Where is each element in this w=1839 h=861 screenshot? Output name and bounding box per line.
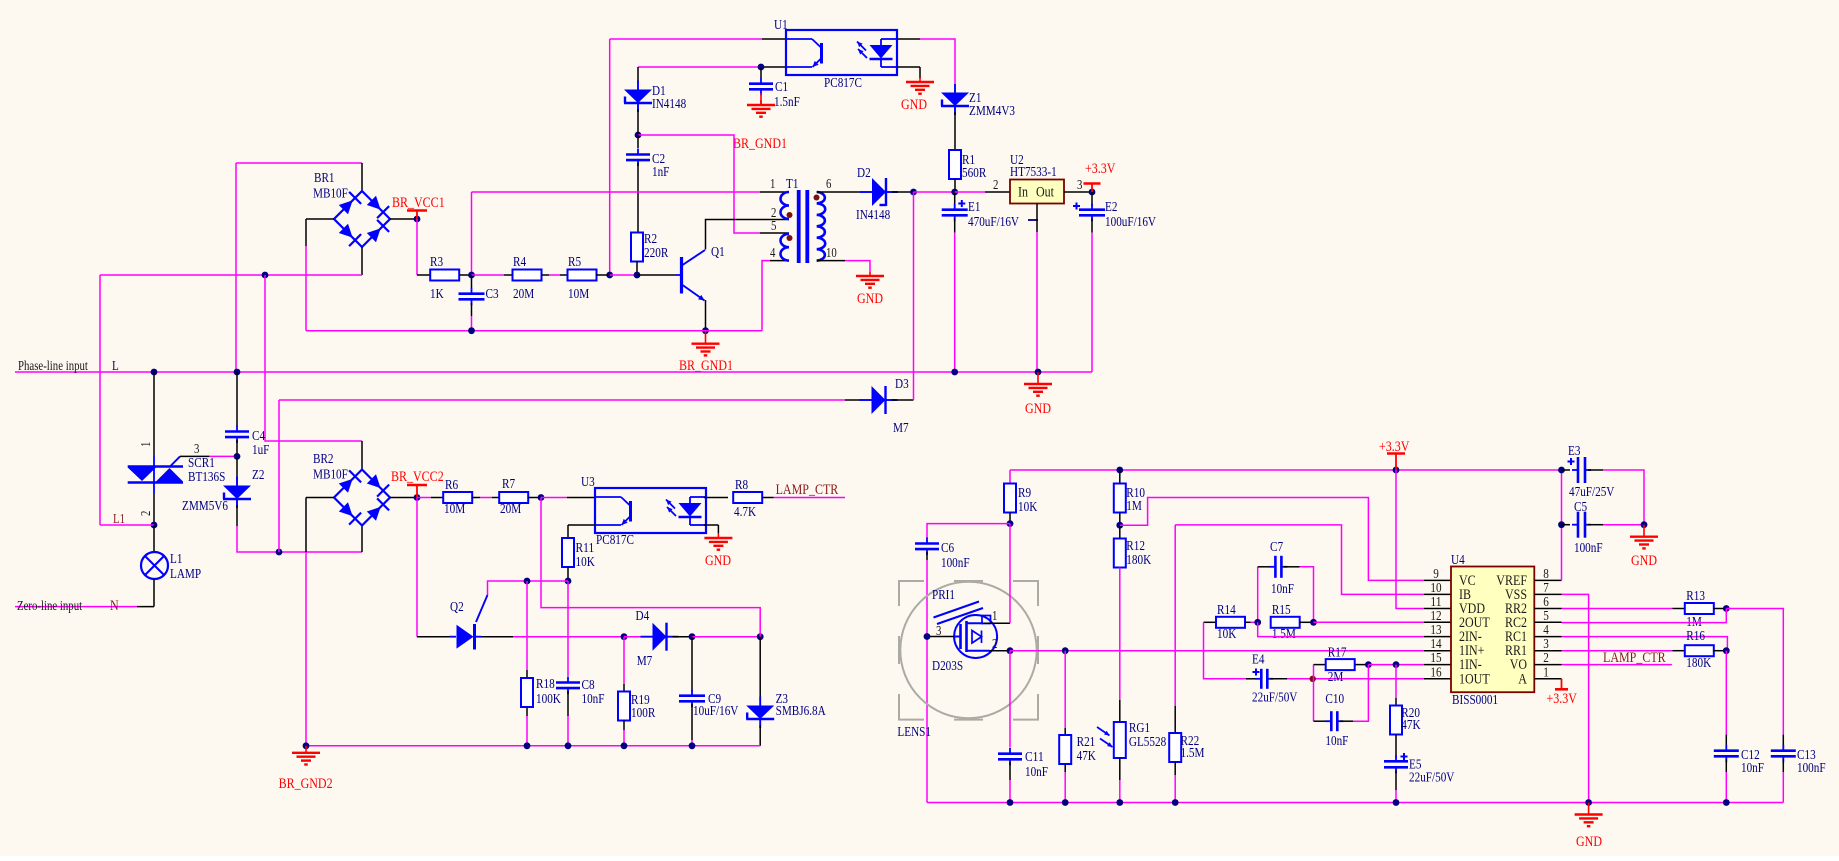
node junction at +3.3V out <box>1089 189 1096 196</box>
wire RR2 pin6 to R13 <box>1562 608 1673 610</box>
voltage regulator U2 HT7533-1 <box>1010 180 1064 204</box>
wire riser to BR2 top <box>265 275 362 441</box>
resistor R17 2M <box>1313 665 1315 679</box>
svg-text:U4: U4 <box>1451 553 1465 568</box>
wire U1 top-left to Q1 base column <box>610 38 762 40</box>
pin 8 VREF <box>1534 579 1561 581</box>
capacitor E3 47uF/25V electrolytic <box>1562 469 1571 471</box>
svg-text:L1: L1 <box>170 552 182 567</box>
svg-text:E4: E4 <box>1252 653 1264 668</box>
wire 2IN- pin13 from R14 node <box>1258 622 1424 636</box>
svg-text:GL5528: GL5528 <box>1129 735 1166 750</box>
svg-text:C5: C5 <box>1574 500 1587 515</box>
wire Q1 emitter to BR_GND1 rail <box>705 300 707 331</box>
wire +3.3V top rail <box>1010 469 1562 471</box>
capacitor C8 10nF <box>567 581 569 676</box>
svg-text:2: 2 <box>1543 651 1549 666</box>
wire T1 pin6 to D2 <box>817 191 861 193</box>
diode D1 IN4148 <box>637 67 639 82</box>
resistor R8 4.7K <box>733 492 762 503</box>
svg-text:5: 5 <box>771 218 777 233</box>
node junction R11 bottom <box>565 578 572 585</box>
svg-text:3: 3 <box>194 441 200 456</box>
resistor R1 560R <box>949 150 961 179</box>
capacitor C9 10uF/16V <box>691 637 693 692</box>
ground BR_GND1 below C1 <box>760 93 762 104</box>
wire VO pin2 LAMP_CTR <box>1562 664 1672 666</box>
resistor R14 10K <box>1204 621 1217 623</box>
capacitor C13 100nF <box>1782 735 1784 748</box>
svg-text:2: 2 <box>993 177 998 192</box>
bridge rectifier BR1 MB10F <box>334 191 390 247</box>
wire U2 Out to 3.3V node <box>1064 191 1092 193</box>
wire U1 right-bottom to GND <box>897 66 920 68</box>
wire D1 node to T1 pin 5 <box>638 135 760 233</box>
ground GND below U1 <box>919 78 921 82</box>
svg-text:10nF: 10nF <box>582 692 605 707</box>
wire R7 node down and over to Z3 node <box>541 498 760 637</box>
node junction Z3 top <box>757 633 764 640</box>
wire lamp net horizontal y275 <box>100 274 362 276</box>
svg-text:560R: 560R <box>962 166 987 181</box>
svg-text:T1: T1 <box>786 177 798 192</box>
capacitor C7 10nF <box>1257 567 1259 623</box>
wire T1 pin1 line <box>471 192 473 275</box>
ground GND below U3 <box>717 533 719 538</box>
svg-text:Zero-line input: Zero-line input <box>17 598 82 613</box>
svg-text:GND: GND <box>1025 401 1051 417</box>
svg-text:10M: 10M <box>444 502 466 517</box>
svg-text:1.5M: 1.5M <box>1272 627 1296 642</box>
wire BR2 bottom corner stub <box>361 526 363 552</box>
node junction R10 top <box>1116 467 1123 474</box>
capacitor C2 1nF <box>637 135 639 148</box>
pin 6 RR2 <box>1534 608 1561 610</box>
svg-text:BR_GND2: BR_GND2 <box>279 776 333 792</box>
svg-text:In: In <box>1018 185 1028 201</box>
node junction E3 left <box>1558 467 1565 474</box>
svg-text:R3: R3 <box>430 255 443 270</box>
svg-text:Q2: Q2 <box>450 600 464 615</box>
svg-text:10nF: 10nF <box>1025 765 1048 780</box>
node junction C4 bottom / gate <box>234 453 241 460</box>
svg-text:Z2: Z2 <box>252 468 264 483</box>
capacitor C6 100nF <box>915 542 939 545</box>
svg-text:C6: C6 <box>941 541 954 556</box>
wire D4 cathode to C9 node <box>673 636 693 638</box>
svg-text:10uF/16V: 10uF/16V <box>693 704 738 719</box>
wire BR1 left corner to BR_GND1 rail <box>306 218 334 220</box>
wire BR2 right corner to BR_VCC2 <box>390 497 417 499</box>
svg-text:BR_VCC1: BR_VCC1 <box>392 195 445 211</box>
photoresistor RG1 GL5528 <box>1119 568 1121 701</box>
wire VSS pin7 to gnd rail <box>1562 594 1589 802</box>
transformer T1 <box>781 192 790 219</box>
svg-text:N: N <box>110 598 119 614</box>
sensor pyro element lines <box>934 602 980 618</box>
svg-text:100uF/16V: 100uF/16V <box>1105 215 1156 230</box>
capacitor C4 1uF <box>236 372 238 427</box>
node junction D1 cathode / C2 <box>635 132 642 139</box>
resistor R3 1K <box>430 270 459 281</box>
wire E1 node to U2 In <box>955 191 985 193</box>
svg-text:R5: R5 <box>568 255 581 270</box>
svg-text:BR_VCC2: BR_VCC2 <box>391 469 444 485</box>
node junction C12 on gnd rail <box>1723 799 1730 806</box>
svg-text:U1: U1 <box>774 18 788 33</box>
wire sensor pin3 <box>927 636 954 638</box>
wire BR1 right corner to BR_VCC1 <box>390 218 417 220</box>
power +3.3V symbol right <box>1395 454 1397 471</box>
wire R13 node to C13 <box>1726 609 1783 735</box>
svg-text:470uF/16V: 470uF/16V <box>968 215 1019 230</box>
svg-text:C3: C3 <box>486 287 499 302</box>
pin 2 VO <box>1534 664 1561 666</box>
resistor R16 180K <box>1685 645 1714 656</box>
power +3.3V symbol <box>1091 184 1093 193</box>
svg-text:SCR1: SCR1 <box>188 456 215 471</box>
svg-text:8: 8 <box>1543 567 1549 582</box>
node junction BR_VCC1 <box>414 216 421 223</box>
wire SCR1 pin2 to lamp <box>153 494 155 525</box>
wire RR1 pin3 to R16 <box>1562 650 1673 652</box>
svg-text:1uF: 1uF <box>252 443 270 458</box>
resistor R5 10M <box>568 270 597 281</box>
svg-text:1M: 1M <box>1126 499 1142 514</box>
wire bottom GND rail <box>927 802 1783 804</box>
svg-text:15: 15 <box>1430 651 1441 666</box>
capacitor C12 10nF <box>1725 651 1727 735</box>
power BR_VCC1 symbol <box>416 211 418 220</box>
svg-text:L: L <box>112 359 119 374</box>
node junction E5 on gnd rail <box>1393 799 1400 806</box>
capacitor E4 22uF/50V electrolytic <box>1246 678 1258 680</box>
wire RC1 pin4 jog to R16 right <box>1562 637 1728 651</box>
svg-text:IN4148: IN4148 <box>856 208 890 223</box>
svg-text:R7: R7 <box>502 477 515 492</box>
svg-text:5: 5 <box>1543 609 1549 624</box>
node junction R7 / U3 <box>538 494 545 501</box>
ground GND on rail <box>1037 372 1039 384</box>
svg-text:14: 14 <box>1430 637 1441 652</box>
wire rail BR_GND1 horizontal y330 <box>306 330 762 332</box>
svg-text:E3: E3 <box>1568 444 1580 459</box>
node junction VSS on gnd rail <box>1585 799 1592 806</box>
svg-text:R13: R13 <box>1686 589 1705 604</box>
node junction +3.3V rail <box>1393 467 1400 474</box>
sensor FET symbol <box>954 615 997 658</box>
svg-text:R4: R4 <box>513 255 526 270</box>
svg-text:6: 6 <box>1543 595 1549 610</box>
node junction maroon R17 left / E4 <box>1310 676 1316 682</box>
ground BR_GND1 below Q1 <box>705 331 707 344</box>
svg-text:RG1: RG1 <box>1129 721 1150 736</box>
node junction E1 neg on L/GND rail <box>951 369 958 376</box>
op-amp U3 optocoupler PC817C <box>595 488 706 533</box>
diode D2 IN4148 <box>872 178 886 206</box>
node junction SCR1 cathode / lamp <box>151 522 158 529</box>
svg-text:10K: 10K <box>1018 500 1037 515</box>
transistor Q1 <box>676 274 682 276</box>
wire BR_VCC1 down to R3 <box>416 219 418 275</box>
svg-text:ZMM5V6: ZMM5V6 <box>182 499 228 514</box>
svg-text:GND: GND <box>705 553 731 569</box>
resistor R13 1M <box>1685 603 1714 614</box>
svg-text:100nF: 100nF <box>1574 541 1603 556</box>
wire D2 to E1 node <box>892 191 914 193</box>
pin 4 RC1 <box>1534 636 1561 638</box>
svg-text:16: 16 <box>1430 665 1441 680</box>
wire VREF pin8 riser <box>1561 470 1563 580</box>
svg-text:SMBJ6.8A: SMBJ6.8A <box>776 704 827 719</box>
svg-text:R18: R18 <box>536 677 555 692</box>
node junction C4 on L <box>234 369 241 376</box>
node junction R15/C7 right <box>1310 619 1317 626</box>
power +3.3V inverted at pin1 A <box>1561 679 1563 690</box>
node junction R18 on BR_GND2 rail <box>524 742 531 749</box>
node junction C5 left <box>1558 521 1565 528</box>
wire BR1 bottom corner to lamp net <box>361 247 363 275</box>
svg-text:1nF: 1nF <box>652 165 670 180</box>
node junction D4 anode / R19 <box>621 633 628 640</box>
resistor R18 100K <box>526 581 528 670</box>
capacitor C11 10nF <box>1009 651 1011 747</box>
svg-text:47uF/25V: 47uF/25V <box>1569 485 1614 500</box>
node junction R2 bottom / Q1 base <box>634 272 641 279</box>
svg-text:LAMP: LAMP <box>170 567 201 582</box>
svg-text:20M: 20M <box>513 287 535 302</box>
resistor R11 10K <box>562 538 574 567</box>
node junction at C1 top <box>758 64 765 71</box>
svg-text:R6: R6 <box>445 478 458 493</box>
svg-text:1: 1 <box>770 176 775 191</box>
svg-text:22uF/50V: 22uF/50V <box>1252 691 1297 706</box>
svg-text:MB10F: MB10F <box>313 468 348 483</box>
svg-text:GND: GND <box>1631 553 1657 569</box>
node junction R21 top <box>1062 647 1069 654</box>
wire sensor pin1 to R9 node <box>983 622 1010 624</box>
resistor R15 1.5M <box>1271 617 1300 628</box>
svg-text:Out: Out <box>1036 185 1055 201</box>
svg-text:ZMM4V3: ZMM4V3 <box>969 104 1015 119</box>
svg-text:10K: 10K <box>1217 627 1236 642</box>
svg-text:C1: C1 <box>775 80 788 95</box>
wire SCR1 gate to C4 node <box>180 455 209 457</box>
svg-text:7: 7 <box>1543 581 1549 596</box>
triac Q2 <box>476 595 488 622</box>
svg-text:R2: R2 <box>644 232 657 247</box>
wire U3 right-bottom to GND <box>704 524 718 526</box>
svg-text:D203S: D203S <box>932 659 963 674</box>
svg-text:10: 10 <box>1430 581 1441 596</box>
svg-text:PC817C: PC817C <box>596 533 634 548</box>
svg-text:BR2: BR2 <box>313 452 334 467</box>
node junction pin3 on C6 column <box>924 633 931 640</box>
pin 5 RC2 <box>1534 621 1561 623</box>
wire BR1 top corner to phase line <box>236 162 362 164</box>
wire BR_VCC2 to R6 <box>417 497 431 499</box>
svg-text:100nF: 100nF <box>1797 761 1826 776</box>
svg-text:10M: 10M <box>568 287 590 302</box>
svg-text:3: 3 <box>936 623 942 638</box>
node junction lamp net to BR2 riser <box>262 272 269 279</box>
node junction sensor pin2 <box>1007 647 1014 654</box>
svg-text:22uF/50V: 22uF/50V <box>1409 771 1454 786</box>
diode D4 M7 <box>653 623 667 651</box>
node junction E1 top <box>951 189 958 196</box>
svg-text:BT136S: BT136S <box>188 470 225 485</box>
svg-text:R12: R12 <box>1126 539 1145 554</box>
svg-text:M7: M7 <box>893 421 909 436</box>
wire VDD +3.3V to pin11 <box>1396 470 1424 609</box>
node junction R3/R4/C3 <box>468 272 475 279</box>
IC U4 BISS0001 <box>1451 567 1534 693</box>
svg-text:R14: R14 <box>1217 603 1236 618</box>
wire R22 node to U4 IB pin10 <box>1175 525 1424 595</box>
svg-text:GND: GND <box>901 97 927 113</box>
svg-text:100K: 100K <box>536 692 561 707</box>
svg-text:1: 1 <box>1543 665 1549 680</box>
wire D3 anode net riser <box>278 400 280 552</box>
node junction BR_VCC2 <box>414 494 421 501</box>
svg-text:GND: GND <box>857 291 883 307</box>
node junction D3 riser on rail <box>910 189 917 196</box>
sensor lens LENS1 dashed square <box>899 581 924 606</box>
node junction R10/R12 <box>1116 522 1123 529</box>
svg-text:180K: 180K <box>1126 553 1151 568</box>
wire phase line L <box>15 371 1092 373</box>
svg-text:LAMP_CTR: LAMP_CTR <box>1603 650 1666 666</box>
svg-text:47K: 47K <box>1077 749 1096 764</box>
node junction SCR1 on L <box>151 369 158 376</box>
wire lamp to N line <box>153 579 155 607</box>
svg-text:R8: R8 <box>735 478 748 493</box>
wire U3 left-bottom to R11 <box>568 524 595 526</box>
svg-text:20M: 20M <box>500 502 522 517</box>
svg-text:U3: U3 <box>581 475 595 490</box>
svg-text:100R: 100R <box>631 706 656 721</box>
diode Z3 SMBJ6.8A zener <box>759 637 761 700</box>
wire sensor pin2 output <box>990 650 1011 652</box>
resistor R6 10M <box>443 492 472 503</box>
node junction R17 right on 1IN- line <box>1365 661 1372 668</box>
node junction R20 top on 1IN- line <box>1393 661 1400 668</box>
resistor R7 20M <box>499 492 528 503</box>
wire R15 node to U4 2OUT pin12 <box>1314 621 1425 623</box>
svg-text:GND: GND <box>1576 834 1602 850</box>
svg-text:+3.3V: +3.3V <box>1379 439 1410 455</box>
resistor R12 180K <box>1119 525 1121 539</box>
svg-text:C4: C4 <box>252 429 265 444</box>
svg-text:E1: E1 <box>968 200 980 215</box>
capacitor C3 <box>471 275 473 288</box>
svg-text:3: 3 <box>1077 177 1083 192</box>
svg-text:C11: C11 <box>1025 750 1044 765</box>
node junction C9 top <box>689 633 696 640</box>
svg-text:3: 3 <box>1543 637 1549 652</box>
svg-text:4.7K: 4.7K <box>734 505 756 520</box>
ground GND right of C5 <box>1643 525 1645 537</box>
diode Z2 ZMM5V6 zener <box>236 456 238 481</box>
capacitor C10 10nF <box>1313 679 1315 721</box>
capacitor E1 470uF/16V electrolytic <box>954 192 956 206</box>
wire Z1 to R1 <box>954 112 956 151</box>
wire 1IN- pin15 line <box>1368 664 1424 666</box>
wire RC2 pin5 jog to R13 right <box>1562 609 1727 623</box>
svg-text:2: 2 <box>138 511 153 516</box>
wire R14 left to 1OUT pin16 line <box>1204 622 1247 679</box>
triac SCR1 BT136S <box>153 456 155 466</box>
svg-text:10nF: 10nF <box>1271 582 1294 597</box>
pin 7 VSS <box>1534 593 1561 595</box>
svg-text:+3.3V: +3.3V <box>1085 161 1116 177</box>
wire T1 pin10 to GND <box>817 260 845 262</box>
node junction R9 bottom <box>1007 520 1014 527</box>
wire BR_VCC2 down to Q2 anode <box>416 498 418 637</box>
wire Z2 bottom to BR2 bottom <box>236 505 238 526</box>
svg-text:1: 1 <box>138 442 153 447</box>
node junction R21 on gnd rail <box>1062 799 1069 806</box>
svg-text:220R: 220R <box>644 246 669 261</box>
svg-text:+3.3V: +3.3V <box>1547 691 1578 707</box>
pin 3 RR1 <box>1534 650 1561 652</box>
svg-text:IN4148: IN4148 <box>652 97 686 112</box>
wire D3 cathode up to supply rail <box>892 399 914 401</box>
svg-text:BISS0001: BISS0001 <box>1452 693 1498 708</box>
power BR_VCC2 symbol <box>416 485 418 498</box>
svg-text:C8: C8 <box>582 678 595 693</box>
node junction Q1 emitter on rail <box>702 327 709 334</box>
wire R9 node to C6 <box>927 524 1010 538</box>
node junction RG1 on gnd rail <box>1116 799 1123 806</box>
bridge rectifier BR2 MB10F <box>334 470 390 526</box>
wire BR_GND2 rail <box>306 745 760 747</box>
node junction R19 on BR_GND2 rail <box>621 742 628 749</box>
node junction C9 on BR_GND2 rail <box>689 742 696 749</box>
resistor R2 220R <box>637 163 639 233</box>
ground GND on bottom rail <box>1588 803 1590 815</box>
svg-text:6: 6 <box>826 176 832 191</box>
lamp L1 <box>153 525 155 552</box>
resistor R4 20M <box>513 270 542 281</box>
svg-text:4: 4 <box>1543 623 1549 638</box>
node junction BR_GND2 <box>303 742 310 749</box>
node junction C5/E3 right GND <box>1641 521 1648 528</box>
wire Q1 collector to T1 pin 2 <box>706 220 790 250</box>
svg-text:R11: R11 <box>576 541 595 556</box>
capacitor E2 100uF/16V electrolytic <box>1091 192 1093 206</box>
svg-text:R17: R17 <box>1328 646 1347 661</box>
svg-text:Q1: Q1 <box>711 245 725 260</box>
svg-text:2M: 2M <box>1328 670 1344 685</box>
node junction R18 top <box>524 578 531 585</box>
svg-text:10nF: 10nF <box>1325 734 1348 749</box>
svg-text:C10: C10 <box>1325 692 1344 707</box>
svg-text:10K: 10K <box>576 555 595 570</box>
svg-text:10nF: 10nF <box>1741 761 1764 776</box>
resistor R10 1M <box>1119 470 1121 484</box>
svg-text:100nF: 100nF <box>941 556 970 571</box>
wire pin2 line to U4 1IN+ <box>1010 650 1424 652</box>
svg-text:1.5M: 1.5M <box>1181 746 1205 761</box>
svg-text:13: 13 <box>1430 623 1441 638</box>
wire R5 to Q1 base <box>606 272 613 279</box>
svg-text:HT7533-1: HT7533-1 <box>1010 165 1057 180</box>
svg-text:PC817C: PC817C <box>824 76 862 91</box>
svg-text:C7: C7 <box>1270 540 1283 555</box>
node junction C8 on BR_GND2 rail <box>565 742 572 749</box>
node junction R16 right <box>1723 647 1730 654</box>
